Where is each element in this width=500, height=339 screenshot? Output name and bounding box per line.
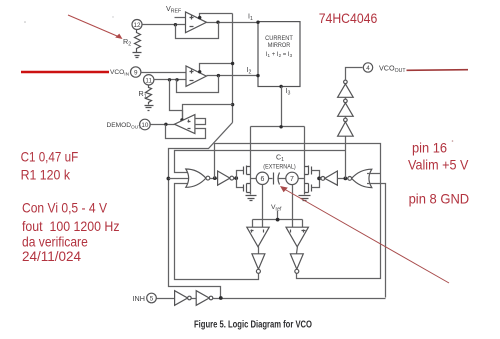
wire U1 feedback box bbox=[176, 23, 219, 39]
svg-text:12: 12 bbox=[133, 22, 141, 29]
wire line A: G1 out to NOR2 upper input bbox=[215, 144, 381, 179]
svg-text:R1 120 k: R1 120 k bbox=[21, 168, 70, 183]
svg-text:MIRROR: MIRROR bbox=[268, 42, 291, 49]
inverter chain B2 bbox=[344, 99, 348, 103]
pin 9 bbox=[131, 67, 141, 77]
wire VREF to U1 + input bbox=[175, 17, 186, 19]
node U1 top tap bbox=[198, 16, 201, 19]
node VCO out at NOR2 bbox=[344, 177, 348, 181]
node U2 inv input b bbox=[175, 78, 178, 81]
node G1 output bbox=[213, 176, 217, 180]
red annotation: long arrow to C1 bbox=[283, 188, 450, 283]
wire pin9 to op-amp U2 + input bbox=[141, 72, 187, 74]
op-amp U3 (demod follower, points left) bbox=[174, 115, 195, 134]
wire G2 upper input bbox=[367, 173, 381, 175]
svg-text:I1 + I2 = I3: I1 + I2 = I3 bbox=[266, 52, 293, 58]
node tap bus / demod bbox=[231, 103, 234, 106]
inverter A4 bbox=[290, 254, 303, 269]
pin 7 bbox=[286, 172, 298, 184]
node INH branch bbox=[219, 296, 223, 300]
transistor Q3 (upper right) bbox=[305, 166, 312, 175]
wire inverter A2 feedback to NOR1 lower input bbox=[175, 184, 259, 280]
red annotation: thick line at VCOin bbox=[21, 71, 109, 74]
wire Q1/Q2 gate wires bbox=[237, 171, 244, 188]
pin 6 bbox=[256, 172, 268, 184]
wire net VCOout feedback (line B) to NOR1 upper input bbox=[175, 151, 346, 173]
wire A3 to NOR2 bbox=[338, 178, 348, 180]
wire I3 bbox=[281, 87, 283, 127]
svg-text:DEMODOUT: DEMODOUT bbox=[107, 122, 142, 130]
svg-text:Figure 5. Logic Diagram for VC: Figure 5. Logic Diagram for VCO bbox=[194, 320, 312, 331]
svg-text:C1: C1 bbox=[276, 155, 284, 164]
inverter A6 bbox=[196, 291, 209, 306]
node I2 at mirror bbox=[256, 74, 259, 77]
capacitor C1 bbox=[269, 178, 286, 180]
svg-text:fout 100 1200 Hz: fout 100 1200 Hz bbox=[22, 219, 120, 234]
red annotation: arrow to R2 bbox=[68, 15, 121, 38]
wire Q3/Q4 gate wires bbox=[312, 171, 320, 188]
svg-text:CURRENT: CURRENT bbox=[265, 35, 293, 42]
wire G1 output bbox=[210, 178, 218, 180]
wire U2 inv node down to demod bbox=[170, 80, 183, 120]
wire K2 to inverter A4 bbox=[297, 247, 298, 254]
wire I3 rail bbox=[251, 127, 305, 195]
wire K1 to inverter A2 bbox=[258, 247, 260, 254]
svg-text:I1: I1 bbox=[248, 14, 253, 23]
inverter A1 bbox=[218, 171, 230, 185]
inverter A3 (points left) bbox=[321, 177, 325, 181]
svg-text:74HC4046: 74HC4046 bbox=[319, 11, 378, 26]
svg-text:da verificare: da verificare bbox=[22, 235, 88, 250]
svg-text:Valim +5 V: Valim +5 V bbox=[408, 158, 469, 173]
transistor Q1 (upper left) bbox=[244, 166, 251, 175]
wire pin7 to right rail bbox=[299, 178, 305, 180]
resistor R2 bbox=[135, 30, 141, 53]
wire G2 lower input to INH rail right bbox=[367, 184, 386, 298]
svg-text:R1: R1 bbox=[139, 89, 147, 100]
svg-text:C1 0,47 uF: C1 0,47 uF bbox=[21, 150, 79, 165]
svg-text:INH: INH bbox=[133, 294, 145, 303]
current mirror block bbox=[258, 22, 300, 87]
pin 4 bbox=[363, 63, 372, 72]
wire U2 output I2 bbox=[207, 75, 259, 77]
pin 11 bbox=[144, 75, 154, 85]
node U2 top tap bbox=[198, 70, 201, 73]
transistor Q2 (lower left) bbox=[244, 184, 251, 193]
svg-text:pin 16: pin 16 bbox=[412, 140, 447, 155]
wire demod + tap to bus bbox=[183, 105, 233, 120]
svg-text:4: 4 bbox=[366, 65, 370, 72]
speck 3 bbox=[452, 140, 454, 142]
svg-text:R2: R2 bbox=[123, 37, 131, 48]
wire U2 feedback box bbox=[177, 76, 219, 93]
wire pin6 to comparator K1 bbox=[262, 185, 264, 228]
wire pin7 to comparator K2 bbox=[292, 185, 294, 228]
wire chain joints bbox=[345, 98, 347, 119]
ground (left totem) bbox=[246, 196, 257, 201]
op-amp U2 bbox=[186, 66, 206, 86]
ground (under R1) bbox=[145, 106, 154, 111]
svg-text:VCOIN: VCOIN bbox=[110, 69, 130, 77]
svg-text:I2: I2 bbox=[247, 67, 252, 76]
inverter A5 bbox=[175, 291, 188, 306]
wire left totem rail bbox=[250, 127, 252, 195]
svg-text:9: 9 bbox=[134, 70, 138, 77]
comparator K2 bbox=[286, 227, 308, 247]
svg-text:5: 5 bbox=[150, 296, 154, 303]
wire pin12 to op-amp U1 inverting input bbox=[143, 24, 186, 26]
pin 12 bbox=[132, 20, 142, 30]
wire U3 + input stub box bbox=[195, 119, 206, 125]
pin 10 bbox=[140, 119, 151, 130]
pin 5 bbox=[147, 293, 157, 303]
wire U3 feedback to - input bbox=[166, 125, 206, 139]
transistor Q4 (lower right) bbox=[305, 184, 312, 193]
wire Vref rail bbox=[253, 211, 303, 228]
wire to inverter A3 bbox=[320, 178, 321, 180]
wire chain vertical bbox=[345, 137, 347, 179]
wire A4 feedback up right side bbox=[297, 174, 381, 279]
node INH rail at NOR1 bbox=[167, 177, 171, 181]
svg-text:(EXTERNAL): (EXTERNAL) bbox=[263, 164, 296, 171]
speck 2 bbox=[112, 16, 113, 17]
wire pin5 to buffer bbox=[157, 298, 175, 300]
red annotation: line right of VCOout bbox=[407, 69, 469, 72]
node demod output bbox=[164, 123, 167, 126]
node tap bus / U2 bbox=[231, 62, 234, 65]
wire U1 output I1 bbox=[207, 22, 259, 24]
node I3 at mirror bottom bbox=[279, 85, 282, 88]
ground (under R2) bbox=[133, 53, 142, 58]
wire INH bottom rail bbox=[213, 298, 386, 300]
svg-text:I3: I3 bbox=[286, 88, 291, 97]
wire U2 top tap bbox=[200, 64, 233, 72]
node U2 inv input a bbox=[168, 78, 171, 81]
wire op-amp tap bus vertical bbox=[232, 14, 234, 123]
wire INH net: NOR middle input, left rail, top diagonal to tap bus bbox=[169, 123, 233, 298]
svg-text:7: 7 bbox=[290, 176, 294, 183]
wire U1 top tap to node line bbox=[200, 14, 233, 19]
op-amp U1 bbox=[186, 12, 207, 33]
svg-text:6: 6 bbox=[260, 176, 264, 183]
svg-text:24/11/024: 24/11/024 bbox=[22, 249, 81, 264]
wire A5 to A6 bbox=[192, 298, 197, 300]
node demod + tap bbox=[180, 118, 183, 121]
wire A1 out to gates bbox=[234, 178, 237, 180]
comparator K1 bbox=[247, 227, 269, 247]
speck 1 bbox=[24, 21, 26, 23]
wire rail to pin6 bbox=[251, 178, 257, 180]
wire pin10 to demod amp bbox=[151, 124, 175, 126]
svg-text:11: 11 bbox=[145, 77, 152, 84]
ground (right totem) bbox=[299, 196, 311, 201]
inverter chain B1 bbox=[344, 80, 348, 84]
svg-text:Vref: Vref bbox=[271, 204, 282, 212]
node U2 output bbox=[217, 74, 220, 77]
wire chain to pin 4 bbox=[346, 68, 363, 81]
svg-text:VREF: VREF bbox=[166, 4, 181, 15]
NOR gate G2 (mirrored) bbox=[352, 169, 372, 187]
NOR gate G1 bbox=[186, 169, 206, 187]
wire pin11 to U2 inverting input bbox=[154, 79, 187, 81]
node I3 rail bbox=[279, 125, 282, 128]
resistor R1 bbox=[146, 85, 152, 105]
svg-text:10: 10 bbox=[141, 122, 149, 129]
inverter chain B3 bbox=[344, 118, 348, 122]
svg-text:pin 8 GND: pin 8 GND bbox=[409, 191, 470, 206]
node U1 output bbox=[216, 21, 219, 24]
inverter A2 bbox=[252, 254, 265, 269]
node U1 inv input bbox=[174, 23, 177, 26]
node Vref bbox=[276, 218, 280, 222]
node I1 at mirror bbox=[256, 21, 259, 24]
svg-text:VCOOUT: VCOOUT bbox=[379, 64, 406, 75]
wire INH rail to NOR1 middle input bbox=[169, 178, 193, 180]
svg-text:Con Vi 0,5 - 4 V: Con Vi 0,5 - 4 V bbox=[22, 201, 108, 216]
